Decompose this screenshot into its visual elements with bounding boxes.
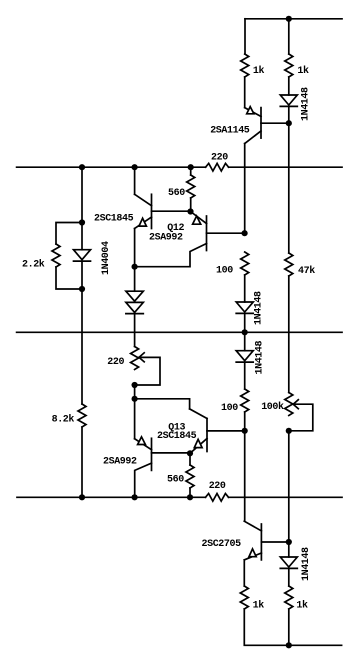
wire rail2	[17, 331, 342, 333]
svg-text:1k: 1k	[253, 65, 265, 77]
resistor R 1k (bottom right)	[285, 586, 293, 609]
resistor R 560 (top)	[187, 175, 195, 198]
svg-text:220: 220	[209, 481, 226, 492]
wire x=288.8 through rail3 to 2SC2705 base	[288, 431, 290, 542]
svg-text:220: 220	[211, 152, 228, 163]
wire x=288.8 base node through rail1 to 47k	[288, 123, 290, 253]
svg-text:1k: 1k	[296, 600, 308, 612]
transistor Q5 2SA992 (bottom)	[103, 399, 190, 498]
node Q13 base junction	[242, 428, 248, 434]
wire 1k right to diode	[288, 77, 290, 95]
svg-text:1N4148: 1N4148	[301, 547, 312, 581]
resistor R 100 (upper)	[241, 252, 249, 275]
resistor R 47k	[285, 253, 293, 276]
node rail3 at x=134.6	[132, 494, 138, 500]
node rail1 at x=134.6	[132, 164, 138, 170]
diode D3 1N4148 (above rail2)	[236, 291, 264, 325]
wire 2SA1145 collector down to Q12 base node	[244, 144, 246, 234]
wire 2SC2705 emitter down	[243, 560, 245, 586]
node Q-pair top junction	[187, 208, 193, 214]
svg-text:2SA992: 2SA992	[103, 457, 137, 468]
wire 2SC1845 emitter down	[134, 229, 136, 267]
node rail1 at x=82	[79, 164, 85, 170]
wire D7 to 1k bottom right	[288, 568, 290, 586]
node rail3 at x=190	[187, 494, 193, 500]
node top rail junction	[286, 16, 292, 22]
svg-text:100: 100	[216, 265, 233, 276]
svg-text:220: 220	[107, 357, 124, 368]
diode D4 1N4148 (below rail2)	[236, 340, 265, 374]
svg-text:8.2k: 8.2k	[52, 414, 75, 426]
node Q13 collector tee	[132, 396, 138, 402]
wire 560 top lead	[190, 167, 192, 175]
transistor Q2 2SC1845 (top)	[94, 167, 191, 228]
node 220 pot bottom junction	[132, 382, 138, 388]
resistor R 2.2k	[52, 244, 60, 267]
wire rail3 right segment	[229, 496, 343, 498]
transistor Q12 2SA992	[135, 212, 245, 267]
svg-text:100: 100	[221, 403, 238, 414]
resistor R 8.2k	[78, 404, 86, 427]
wire top rail left drop	[244, 19, 246, 54]
diode stack D6 (x=134.6 lower)	[126, 302, 143, 313]
svg-text:1N4004: 1N4004	[101, 241, 112, 275]
resistor R 1k (bottom left)	[240, 586, 248, 609]
wire x=82 rail1 to tee	[81, 167, 83, 222]
svg-text:100k: 100k	[261, 401, 284, 413]
wire 100 to diode	[244, 275, 246, 302]
node rail3 at x=82	[79, 494, 85, 500]
diode D7 1N4148 (bottom right)	[280, 547, 312, 581]
wire 100 to Q13 base node	[244, 412, 246, 431]
resistor 1k (top right)	[285, 54, 293, 77]
node tee bottom of 2.2k/1N4004	[79, 286, 85, 292]
wire 560 bottom lead	[190, 198, 192, 212]
wire 1N4004 to bottom tee	[81, 261, 83, 289]
wire rail1 left segment	[17, 166, 206, 168]
node bottom rail junction	[286, 642, 292, 648]
wire top rail	[245, 18, 342, 20]
svg-text:47k: 47k	[298, 265, 315, 277]
svg-text:1k: 1k	[297, 65, 309, 77]
wire rail1 right segment	[229, 166, 342, 168]
svg-text:2SC2705: 2SC2705	[202, 539, 242, 550]
node x=134.6 mid junction	[132, 264, 138, 270]
svg-text:2SA1145: 2SA1145	[210, 126, 250, 137]
diode D1 1N4148 (top right)	[280, 87, 311, 121]
wire base node to diode D7	[288, 542, 290, 557]
svg-text:2SC1845: 2SC1845	[157, 431, 197, 442]
svg-text:1k: 1k	[253, 600, 265, 612]
resistor R 220 (rail1)	[206, 163, 229, 171]
svg-text:560: 560	[167, 475, 184, 486]
wire bottom rail	[244, 609, 341, 645]
node rail1 at x=190.7	[188, 164, 194, 170]
node 2SC2705 base junction	[286, 539, 292, 545]
wire tee to 2.2k top	[56, 223, 82, 245]
wire 2.2k bottom to tee	[56, 267, 82, 289]
svg-text:2SA992: 2SA992	[149, 233, 183, 244]
svg-text:2.2k: 2.2k	[22, 258, 45, 270]
node Q-pair bottom junction	[187, 450, 193, 456]
diode stack D5 (x=134.6 upper)	[126, 267, 143, 302]
node 100k pot bottom junction	[286, 428, 292, 434]
potentiometer R 100k	[261, 393, 313, 431]
resistor R 220 (rail3)	[206, 494, 229, 502]
wire D4 to 100 lower	[244, 362, 246, 389]
wire x=82 down to rail3	[81, 289, 83, 404]
svg-text:2SC1845: 2SC1845	[94, 214, 134, 225]
node tee top of 2.2k/1N4004	[79, 219, 85, 225]
wire 560 bottom top lead	[189, 453, 191, 465]
transistor Q6 2SC2705	[202, 521, 289, 560]
wire pot junction down	[134, 385, 136, 399]
wire x=244.7 through rail3 to 2SC2705	[244, 431, 246, 521]
wire 560 to rail3	[189, 488, 191, 497]
node rail2 junction	[242, 329, 248, 335]
wire diode to rail2	[244, 313, 246, 332]
transistor Q13 2SC1845	[135, 399, 245, 454]
diode D2 1N4004	[74, 241, 113, 275]
wire 1k left to 2SA1145 emitter	[244, 77, 246, 108]
wire top rail right drop	[288, 19, 290, 54]
transistor U1 2SA1145	[210, 107, 289, 144]
wire diode to base node	[288, 106, 290, 123]
potentiometer R 220	[107, 314, 160, 385]
svg-text:560: 560	[168, 188, 185, 199]
wire 47k through rail2 to 100k	[288, 276, 290, 393]
wire 8.2k to rail3	[81, 427, 83, 497]
node 2SA1145 base junction	[286, 120, 292, 126]
svg-text:1N4148: 1N4148	[301, 87, 312, 121]
wire 1k right to bottom rail	[288, 609, 290, 645]
wire diode 1N4004 top lead	[81, 223, 83, 250]
resistor 1k (top left)	[241, 54, 249, 77]
wire rail3 left segment	[17, 496, 206, 498]
resistor R 100 (lower)	[241, 389, 249, 412]
svg-text:1N4148: 1N4148	[255, 340, 266, 374]
svg-text:1N4148: 1N4148	[254, 291, 265, 325]
resistor R 560 (bottom)	[186, 465, 194, 488]
node Q12 base junction	[242, 230, 248, 236]
wire rail2 to diode D4	[244, 332, 246, 350]
